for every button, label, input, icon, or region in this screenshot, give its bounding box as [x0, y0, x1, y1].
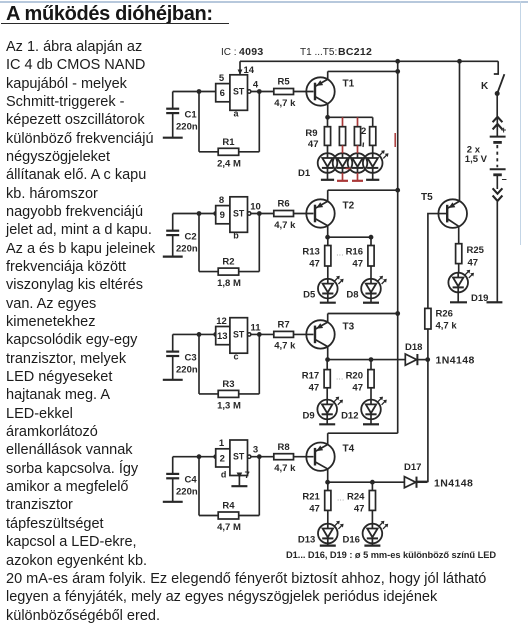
svg-text:C2: C2 [185, 232, 197, 243]
svg-text:IC :: IC : [221, 47, 237, 58]
svg-text:1N4148: 1N4148 [436, 355, 475, 367]
svg-text:47: 47 [354, 504, 365, 515]
svg-text:47: 47 [309, 504, 320, 515]
transistor type label T1..T5 BC212 [300, 46, 372, 58]
svg-text:R1: R1 [222, 137, 235, 148]
wire: +V bus (emitters) [395, 59, 400, 433]
wire: T1 collector node [325, 104, 373, 120]
svg-text:BC212: BC212 [338, 46, 372, 58]
svg-text:D13: D13 [298, 535, 315, 546]
svg-text:D5: D5 [303, 290, 316, 301]
svg-text:11: 11 [250, 322, 261, 333]
battery negative rail bar [487, 301, 503, 303]
svg-text:−: − [502, 175, 507, 185]
wire: T2 collector node [325, 226, 371, 240]
svg-text:ST: ST [233, 87, 245, 97]
svg-text:T2: T2 [343, 201, 355, 212]
wire: gate b input net [173, 211, 218, 216]
svg-text:3: 3 [253, 445, 258, 456]
svg-text:4093: 4093 [239, 46, 264, 58]
top frame line [0, 1, 528, 3]
wire: gate d input net [173, 454, 218, 459]
svg-text:2,4 M: 2,4 M [217, 158, 241, 169]
LED D13 [298, 510, 344, 545]
svg-text:R20: R20 [346, 371, 363, 382]
svg-text:47: 47 [352, 383, 363, 394]
title [6, 4, 213, 24]
transistor T1 BC212 (PNP) [306, 77, 354, 105]
resistor R21 47 [302, 482, 331, 514]
svg-text:R25: R25 [467, 245, 485, 256]
svg-text:D1: D1 [298, 168, 311, 179]
svg-text:12: 12 [216, 316, 227, 327]
svg-text:C3: C3 [185, 352, 197, 363]
svg-text:+: + [501, 125, 506, 135]
svg-text:D12: D12 [341, 410, 358, 421]
svg-text:C4: C4 [185, 475, 198, 486]
svg-text:...: ... [337, 493, 345, 503]
svg-text:220n: 220n [176, 122, 198, 133]
capacitor C1 220n [163, 92, 198, 138]
wire: gate a output node [251, 89, 274, 94]
svg-text:D8: D8 [346, 290, 358, 301]
svg-text:ST: ST [233, 209, 245, 219]
svg-text:9: 9 [220, 210, 225, 221]
title underline [1, 23, 229, 25]
wire: gate c output node [251, 332, 274, 337]
LED D12 [341, 388, 387, 425]
resistor R26 4,7k [425, 308, 458, 331]
svg-text:1,3 M: 1,3 M [217, 400, 241, 411]
svg-text:R26: R26 [436, 309, 453, 320]
svg-text:T1: T1 [343, 79, 355, 90]
svg-text:2: 2 [220, 453, 225, 464]
wire: T3 emitter to +V bus [328, 311, 400, 322]
svg-text:4,7 M: 4,7 M [217, 522, 241, 533]
resistor R7 4,7k (base) [274, 320, 314, 352]
LED D4 [363, 150, 389, 180]
svg-text:10: 10 [250, 202, 261, 213]
svg-text:T3: T3 [343, 321, 355, 332]
battery 2x 1,5V [465, 125, 507, 185]
resistor R8 4,7k (base) [274, 442, 314, 474]
connector chevrons (down) [493, 176, 503, 302]
resistor R9 47 [305, 117, 330, 150]
wire: switch to battery [496, 94, 498, 117]
svg-text:R21: R21 [302, 492, 320, 503]
svg-text:13: 13 [217, 331, 228, 342]
LED D2 (red-marked) [333, 153, 353, 181]
resistor R1 2,4 M (feedback) [199, 92, 259, 170]
resistor R12 47 [361, 117, 376, 147]
switch K [481, 61, 504, 96]
svg-text:2: 2 [361, 126, 366, 137]
svg-text:47: 47 [352, 259, 363, 270]
capacitor C2 220n [163, 214, 198, 257]
svg-text:1,8 M: 1,8 M [217, 278, 241, 289]
svg-text:R5: R5 [278, 77, 291, 88]
resistor R2 1,8 M (feedback) [199, 214, 259, 290]
capacitor C3 220n [163, 334, 198, 379]
svg-text:T5: T5 [421, 192, 433, 203]
svg-text:1,5 V: 1,5 V [465, 154, 488, 165]
wire: T5 collector [458, 226, 460, 243]
svg-text:R24: R24 [347, 492, 365, 503]
svg-text:ST: ST [233, 329, 245, 339]
svg-text:T4: T4 [343, 444, 355, 455]
wire: T4 collector node [325, 469, 372, 485]
diode D18 1N4148 [405, 342, 475, 367]
wire: gate b output node [251, 211, 274, 216]
transistor T4 BC212 (PNP) [306, 443, 354, 471]
svg-text:...: ... [336, 372, 344, 382]
resistor R17 47 [302, 360, 331, 394]
svg-text:R16: R16 [346, 247, 363, 258]
NAND Schmitt gate c (ST), pins 12/13 in, 11 out [216, 316, 262, 362]
svg-text:D17: D17 [404, 462, 421, 473]
svg-text:D18: D18 [405, 342, 422, 353]
svg-text:D16: D16 [342, 535, 359, 546]
wire: T3 collector node [325, 347, 371, 362]
svg-text:5: 5 [219, 73, 225, 84]
wire: R26 to D18/D17 cathodes [417, 329, 428, 481]
svg-text:D19: D19 [471, 293, 488, 304]
svg-text:K: K [481, 81, 489, 92]
right frame line [520, 1, 521, 245]
svg-text:R17: R17 [302, 371, 319, 382]
NAND Schmitt gate a (ST), pins 5/6 in, 4 out [216, 73, 259, 119]
transistor T5 BC212 (PNP) [421, 192, 467, 228]
wire: row1 resistor-LED leads [328, 145, 373, 153]
resistor R5 4,7k (base) [274, 77, 314, 109]
svg-text:R8: R8 [278, 442, 290, 453]
svg-text:47: 47 [309, 259, 320, 270]
svg-text:4,7 k: 4,7 k [274, 463, 296, 474]
svg-text:4,7 k: 4,7 k [274, 220, 296, 231]
LED D3 (red-marked) [348, 153, 368, 181]
resistor R16 47 [346, 235, 375, 270]
resistor R20 47 [346, 357, 375, 393]
svg-text:4: 4 [253, 80, 259, 91]
svg-text:b: b [233, 231, 239, 241]
svg-text:R13: R13 [302, 247, 319, 258]
IC label IC:4093 [221, 46, 264, 58]
svg-text:6: 6 [220, 88, 225, 99]
NAND Schmitt gate d (ST), pins 1/2 in, 3 out [216, 438, 258, 486]
connector chevrons (up) [493, 117, 503, 137]
svg-text:R2: R2 [222, 257, 234, 268]
svg-text:8: 8 [219, 195, 224, 206]
wire: T3 collector to D18 anode [371, 359, 405, 361]
svg-text:47: 47 [309, 383, 320, 394]
LED D19 [448, 264, 488, 304]
LED D1 [298, 153, 337, 180]
svg-text:1: 1 [219, 438, 225, 449]
transistor T2 BC212 (PNP) [306, 199, 354, 227]
resistor R10 (red-marked column) [339, 117, 345, 145]
svg-text:7: 7 [245, 470, 250, 481]
wire: gate d output node [251, 454, 274, 459]
svg-text:47: 47 [308, 139, 319, 150]
svg-text:R7: R7 [278, 320, 290, 331]
svg-text:220n: 220n [176, 364, 198, 375]
LED D5 [303, 266, 343, 303]
wire: gate a input net [173, 89, 216, 94]
svg-text:ST: ST [233, 452, 245, 462]
LED D9 [303, 388, 343, 425]
resistor R13 47 [302, 237, 331, 269]
wire: pin 14 from rail to gate a, arrow into box [238, 61, 255, 76]
svg-text:D9: D9 [303, 410, 315, 421]
wire: +V top rail [240, 60, 498, 62]
svg-text:1N4148: 1N4148 [434, 478, 473, 490]
wire: T2 emitter to +V bus [328, 188, 400, 201]
wire: T4 collector to D17 anode [372, 481, 404, 483]
svg-text:4,7 k: 4,7 k [274, 341, 296, 352]
wire: T5 base to R26 [428, 214, 447, 309]
red annotation marks [346, 133, 396, 169]
svg-text:47: 47 [468, 258, 479, 269]
resistor R6 4,7k (base) [274, 199, 314, 231]
svg-text:D1... D16, D19 : ø 5 mm-es kü: D1... D16, D19 : ø 5 mm-es különböző szí… [286, 550, 496, 560]
svg-text:...: ... [336, 248, 344, 258]
svg-text:220n: 220n [176, 487, 198, 498]
resistor R24 47 [347, 480, 376, 515]
svg-text:c: c [233, 351, 238, 361]
svg-text:4,7 k: 4,7 k [436, 321, 458, 332]
resistor R3 1,3 M (feedback) [199, 334, 259, 411]
wire: gate c input net [173, 332, 218, 337]
LED D8 [346, 266, 386, 303]
resistor R11 (red-marked column) [354, 117, 360, 145]
NAND Schmitt gate b (ST), pins 8/9 in, 10 out [216, 195, 261, 241]
transistor T3 BC212 (PNP) [306, 320, 354, 348]
resistor R25 47 [456, 244, 485, 269]
svg-text:T1 ...T5:: T1 ...T5: [300, 47, 337, 58]
svg-text:4,7 k: 4,7 k [274, 98, 296, 109]
diode D17 1N4148 [404, 462, 473, 490]
capacitor C4 220n [163, 457, 198, 502]
LED D16 [342, 510, 388, 545]
wire: T1 emitter to +V bus [328, 69, 400, 79]
svg-text:R9: R9 [305, 128, 317, 139]
wire: T4 emitter to +V bus [328, 433, 398, 444]
svg-text:R4: R4 [222, 501, 235, 512]
svg-text:220n: 220n [176, 244, 198, 255]
resistor R4 4,7 M (feedback) [199, 457, 259, 533]
svg-text:R6: R6 [278, 199, 290, 210]
svg-text:d: d [221, 470, 227, 480]
svg-text:C1: C1 [185, 110, 198, 121]
wire: T5 emitter from top rail [457, 59, 462, 201]
svg-text:R3: R3 [222, 379, 234, 390]
